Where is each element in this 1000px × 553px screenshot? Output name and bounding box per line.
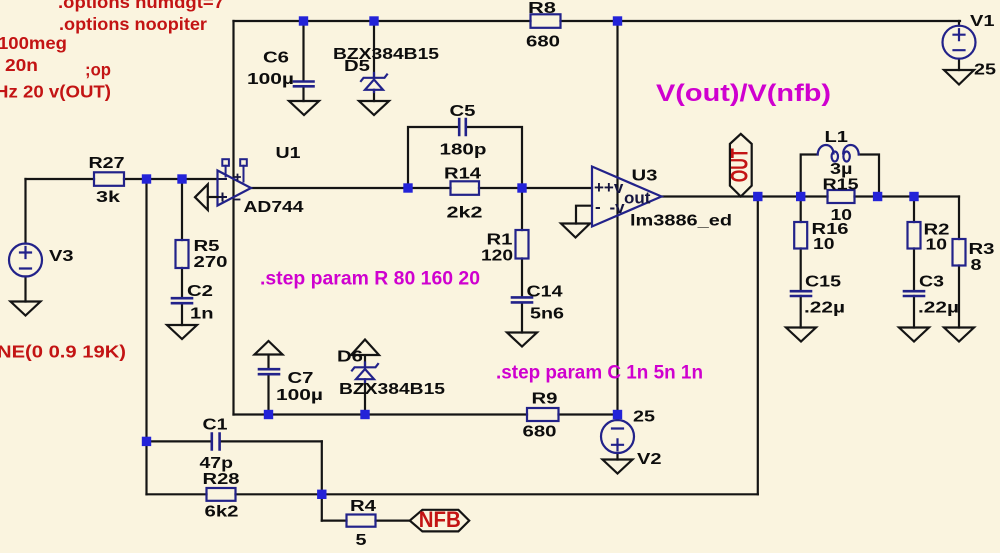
- U1 input arrow: [195, 184, 218, 210]
- wire L1 left lead: [801, 155, 818, 197]
- wire output row: [662, 195, 960, 197]
- svg-text:C5: C5: [450, 103, 476, 120]
- wire C1/R4 right vertical x=321.8: [321, 441, 323, 520]
- svg-text:6k2: 6k2: [205, 504, 239, 521]
- capacitor C15: [791, 291, 811, 296]
- U3 pin texts: [594, 178, 651, 217]
- svg-text:V1: V1: [970, 13, 995, 30]
- wire R4 row: [322, 519, 410, 521]
- wire mid vertical x=617.5: [616, 21, 618, 415]
- svg-text:.22µ: .22µ: [804, 300, 845, 317]
- svg-text:R8: R8: [528, 0, 557, 17]
- svg-text:10: 10: [813, 236, 835, 253]
- svg-text:U1: U1: [276, 145, 301, 162]
- svg-text:lm3886_ed: lm3886_ed: [630, 213, 732, 230]
- svg-text:V3: V3: [49, 248, 74, 265]
- svg-text:100µ: 100µ: [247, 71, 294, 88]
- svg-text:Hz 20 v(OUT): Hz 20 v(OUT): [0, 82, 111, 102]
- op-amp U1: [218, 159, 252, 205]
- voltage source V2: [601, 420, 634, 453]
- svg-text:C2: C2: [187, 283, 213, 300]
- port flag NFB: [410, 507, 469, 532]
- svg-text:R28: R28: [203, 471, 240, 488]
- svg-text:R27: R27: [89, 155, 125, 172]
- wire U3 minus ground stub: [576, 206, 592, 224]
- svg-text:C3: C3: [919, 274, 944, 291]
- svg-text:L1: L1: [825, 129, 849, 146]
- wire R3 branch: [958, 197, 960, 328]
- wire R2 C3 branch: [913, 197, 915, 328]
- svg-text:AD744: AD744: [244, 199, 304, 216]
- svg-text:BZX384B15: BZX384B15: [333, 46, 439, 63]
- svg-text:-: -: [595, 198, 601, 217]
- wire bottom rail: [234, 413, 618, 415]
- zener diode D6: [352, 363, 378, 383]
- wire C5 loop top: [408, 127, 522, 188]
- wire C6 branch: [302, 21, 304, 101]
- svg-text:5n6: 5n6: [530, 306, 564, 323]
- resistor R14: [451, 181, 480, 195]
- svg-text:2k2: 2k2: [447, 205, 483, 222]
- capacitor C14: [512, 297, 532, 302]
- svg-text:10: 10: [926, 237, 948, 254]
- capacitor C1: [212, 434, 220, 450]
- svg-text:D6: D6: [337, 349, 363, 366]
- svg-text:5: 5: [356, 532, 367, 549]
- svg-text:680: 680: [526, 34, 560, 51]
- wire V1 stubs: [958, 21, 960, 70]
- svg-text:C14: C14: [527, 284, 563, 301]
- wire D5 branch: [373, 21, 375, 101]
- wire R1 C14 branch: [521, 188, 523, 333]
- ground V2: [603, 460, 633, 474]
- svg-text:.step param C 1n 5n 1n: .step param C 1n 5n 1n: [496, 363, 703, 384]
- svg-text:100meg: 100meg: [0, 33, 67, 53]
- svg-text:.options noopiter: .options noopiter: [59, 14, 207, 34]
- svg-text:NFB: NFB: [419, 507, 461, 532]
- resistor R3: [953, 239, 966, 266]
- svg-text:R3: R3: [969, 241, 995, 258]
- resistor R16: [794, 222, 807, 249]
- svg-text:25: 25: [633, 409, 655, 426]
- ground C6: [289, 101, 319, 115]
- op-amp U3: [592, 167, 662, 227]
- svg-text:R14: R14: [444, 166, 481, 183]
- svg-text:3µ: 3µ: [830, 161, 853, 178]
- svg-text:180p: 180p: [440, 142, 487, 159]
- resistor R28: [207, 488, 236, 501]
- voltage source V3: [9, 244, 42, 277]
- wire input row: [26, 178, 218, 180]
- capacitor C3: [904, 291, 924, 296]
- resistor R8: [531, 14, 561, 27]
- svg-text:;op: ;op: [85, 60, 111, 80]
- svg-text:C1: C1: [203, 417, 228, 434]
- svg-text:.step param R 80 160 20: .step param R 80 160 20: [260, 269, 480, 290]
- capacitor C5: [459, 119, 466, 135]
- svg-text:U3: U3: [632, 168, 658, 185]
- svg-text:C6: C6: [263, 50, 289, 67]
- port flag OUT: [727, 134, 754, 197]
- resistor R5: [176, 240, 189, 268]
- wire L1 right lead: [859, 155, 879, 197]
- ground D5: [359, 101, 389, 115]
- svg-text:1n: 1n: [190, 306, 214, 323]
- svg-text:.22µ: .22µ: [918, 300, 959, 317]
- resistor R1: [516, 230, 529, 259]
- capacitor C6: [294, 82, 314, 87]
- svg-text:out: out: [624, 189, 651, 208]
- ground C3: [899, 328, 929, 342]
- svg-text:120: 120: [481, 248, 513, 265]
- resistor R2: [908, 222, 921, 249]
- capacitor C7: [259, 369, 279, 374]
- svg-text:.options numdgt=7: .options numdgt=7: [58, 0, 224, 12]
- svg-text:R9: R9: [532, 391, 558, 408]
- ground U3: [561, 224, 590, 238]
- svg-text:25: 25: [974, 62, 996, 79]
- wire left box vertical: [232, 21, 234, 415]
- svg-text:3k: 3k: [96, 189, 121, 206]
- svg-text:NE(0 0.9 19K): NE(0 0.9 19K): [0, 342, 126, 362]
- svg-text:R1: R1: [487, 232, 513, 249]
- svg-text:R4: R4: [350, 498, 376, 515]
- svg-text:R15: R15: [823, 177, 859, 194]
- svg-text:270: 270: [194, 254, 228, 271]
- wire R28 row: [147, 493, 758, 495]
- junction nodes: [142, 16, 919, 499]
- inductor L1: [818, 145, 859, 162]
- svg-text:8: 8: [971, 257, 982, 274]
- ground D6 inverted: [351, 340, 379, 415]
- resistor R27: [94, 172, 124, 186]
- wire U1 output row: [251, 187, 592, 189]
- svg-text:-v: -v: [610, 198, 626, 217]
- svg-text:20n: 20n: [5, 55, 38, 75]
- wire V2 stubs: [616, 415, 618, 460]
- svg-text:OUT: OUT: [727, 148, 754, 182]
- ground C14: [507, 333, 537, 347]
- svg-text:100µ: 100µ: [276, 387, 323, 404]
- wire C1 row: [147, 440, 322, 442]
- ground R3: [944, 328, 974, 342]
- resistor R4: [347, 515, 376, 527]
- svg-text:C7: C7: [288, 370, 314, 387]
- wire top rail: [234, 20, 961, 22]
- svg-text:C15: C15: [805, 274, 841, 291]
- zener diode D5: [361, 73, 387, 92]
- ground C2: [167, 325, 197, 339]
- voltage source V1: [943, 26, 976, 59]
- wire R5 C2 branch: [181, 179, 183, 325]
- svg-text:V2: V2: [637, 451, 662, 468]
- wire R16 C15 branch: [800, 197, 802, 328]
- svg-text:680: 680: [523, 424, 557, 441]
- ground V3: [11, 302, 41, 316]
- wire V3 branch: [24, 179, 26, 302]
- capacitor C2: [172, 298, 192, 303]
- svg-text:R5: R5: [194, 238, 220, 255]
- svg-text:BZX384B15: BZX384B15: [339, 381, 445, 398]
- svg-text:V(out)/V(nfb): V(out)/V(nfb): [656, 80, 831, 107]
- wire feedback tap vertical x=758: [757, 197, 759, 495]
- resistor R15: [828, 190, 855, 203]
- svg-text:++v: ++v: [594, 178, 624, 197]
- ground V1: [944, 70, 974, 85]
- wire feedback left vertical x=146.5: [145, 179, 147, 494]
- resistor R9: [527, 408, 559, 421]
- svg-text:47p: 47p: [200, 455, 234, 472]
- ground C15: [786, 328, 816, 342]
- ground C7 inverted: [255, 341, 283, 415]
